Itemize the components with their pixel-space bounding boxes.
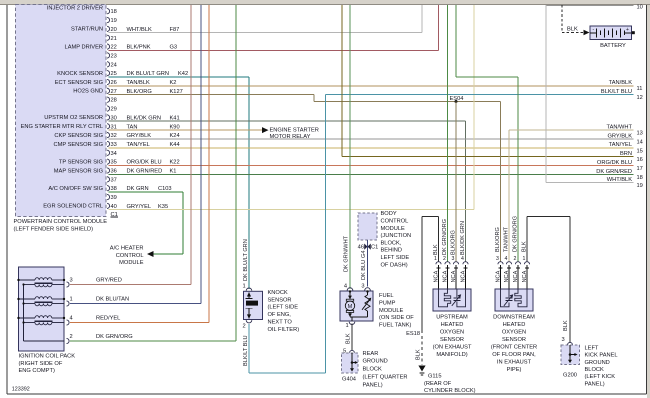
svg-text:22: 22 [111, 45, 117, 51]
svg-text:3: 3 [70, 278, 73, 284]
svg-text:K44: K44 [170, 142, 180, 148]
wire DK BLU G4 BCM to fuel pump pin 3 [367, 240, 369, 250]
fuel pump module box [340, 291, 373, 321]
svg-text:DK BLU/LT GRN: DK BLU/LT GRN [243, 239, 249, 281]
svg-text:3: 3 [496, 256, 499, 262]
PCM connector C1 pin arcs and pin numbers 18-40 [107, 9, 110, 14]
svg-text:ES04: ES04 [450, 96, 464, 102]
svg-text:OXYGEN: OXYGEN [502, 329, 526, 335]
svg-text:(LEFT FENDER SIDE SHIELD): (LEFT FENDER SIDE SHIELD) [14, 227, 94, 233]
svg-text:OF ENG,: OF ENG, [268, 312, 292, 318]
svg-text:NCA: NCA [496, 270, 502, 282]
svg-text:F87: F87 [170, 27, 180, 33]
svg-text:OXYGEN: OXYGEN [440, 329, 464, 335]
wire RED/YEL coil pack pin4 vertical [208, 5, 210, 323]
svg-text:15: 15 [637, 148, 643, 154]
arrow to engine starter motor relay [262, 127, 269, 133]
svg-text:MODULE: MODULE [119, 260, 144, 266]
wire BRN to right pin 16 [341, 5, 343, 156]
coil transformer 1 [19, 279, 36, 281]
svg-text:25: 25 [111, 71, 117, 77]
svg-text:OF DASH): OF DASH) [381, 262, 408, 268]
fuel pump bottom bus [350, 316, 368, 318]
svg-text:2: 2 [243, 324, 246, 330]
upstream O2 internals heater and sensor [439, 289, 448, 307]
svg-text:DK GRN/WHT: DK GRN/WHT [344, 235, 350, 272]
svg-text:NCA: NCA [451, 270, 457, 282]
right connector pin 10 [546, 5, 634, 7]
svg-text:CONTROL: CONTROL [116, 253, 144, 259]
wire DK BLU/TAN coil pack pin1 vertical [200, 5, 202, 304]
splice ES04 [455, 100, 458, 103]
svg-text:36: 36 [111, 169, 117, 175]
svg-text:MAP SENSOR SIG: MAP SENSOR SIG [54, 168, 103, 174]
svg-text:RED/YEL: RED/YEL [96, 316, 120, 322]
wire DK BLU/TAN coil pin 1 [70, 303, 201, 305]
svg-text:4: 4 [461, 256, 464, 262]
svg-text:TAN/BLK: TAN/BLK [127, 80, 150, 86]
svg-text:REAR: REAR [363, 351, 379, 357]
svg-text:WHT/BLK: WHT/BLK [127, 27, 152, 33]
svg-text:30: 30 [111, 115, 117, 121]
svg-text:BLK: BLK [346, 333, 352, 344]
downstream O2 sensor box [495, 289, 533, 311]
svg-text:INJECTOR 2 DRIVER: INJECTOR 2 DRIVER [47, 6, 103, 12]
svg-text:ORG/DK BLU: ORG/DK BLU [127, 160, 162, 166]
svg-text:BEHIND: BEHIND [381, 248, 403, 254]
svg-text:BLK/PNK: BLK/PNK [127, 45, 151, 51]
svg-text:PIPE): PIPE) [507, 367, 522, 373]
svg-text:32: 32 [111, 133, 117, 139]
right gray strip [647, 5, 650, 398]
svg-text:K127: K127 [170, 89, 183, 95]
svg-text:19: 19 [637, 183, 643, 189]
svg-text:17: 17 [637, 166, 643, 172]
svg-text:BLOCK,: BLOCK, [381, 240, 402, 246]
svg-text:ES18: ES18 [406, 331, 420, 337]
svg-text:ENG COMPT): ENG COMPT) [19, 368, 55, 374]
svg-text:BLK: BLK [521, 241, 527, 252]
svg-text:OF FLOOR PAN,: OF FLOOR PAN, [492, 352, 536, 358]
svg-text:5: 5 [343, 348, 346, 354]
svg-text:27: 27 [111, 89, 117, 95]
svg-text:(LEFT SIDE: (LEFT SIDE [268, 305, 299, 311]
svg-text:HEATED: HEATED [441, 322, 464, 328]
wire GRY/BLK K24 pin32 to right pin 14 [109, 138, 634, 140]
wire BLK/PNK G3 pin22 [109, 49, 439, 51]
svg-text:33: 33 [111, 142, 117, 148]
svg-text:NCA: NCA [513, 270, 519, 282]
svg-text:K24: K24 [170, 133, 180, 139]
svg-text:12: 12 [637, 95, 643, 101]
wire WHT/BLK F87 pin20 [109, 32, 423, 34]
battery [590, 26, 632, 40]
svg-text:23: 23 [111, 53, 117, 59]
knock sensor pin 2 [246, 320, 252, 323]
svg-text:BODY: BODY [381, 211, 397, 217]
svg-text:GRY/BLK: GRY/BLK [607, 133, 632, 139]
svg-text:26: 26 [111, 80, 117, 86]
svg-text:35: 35 [111, 160, 117, 166]
wire DK GRN/ORG top segment to downstream O2 pin2 [455, 5, 457, 77]
wire DK GRN/RED K1 pin36 to right pin 18 [109, 173, 634, 175]
svg-text:UPSTRM O2 SENSOR: UPSTRM O2 SENSOR [44, 115, 103, 121]
wire BLK/DK GRN K41 pin30 to upstream O2 pin4 [109, 120, 466, 122]
wire RED/YEL coil pin 4 [70, 322, 209, 324]
svg-text:28: 28 [111, 98, 117, 104]
svg-text:1: 1 [346, 323, 349, 329]
svg-text:BLK/ORG: BLK/ORG [450, 230, 456, 255]
svg-text:2: 2 [514, 256, 517, 262]
svg-text:SENSOR: SENSOR [440, 337, 464, 343]
fuel level sender [367, 291, 369, 295]
svg-text:GRY/BLK: GRY/BLK [127, 133, 152, 139]
svg-text:(JUNCTION: (JUNCTION [381, 233, 412, 239]
svg-text:PANEL): PANEL) [585, 381, 605, 387]
wire DK GRN/ORG upstream O2 pin2 [447, 5, 449, 262]
svg-text:M: M [348, 304, 353, 310]
wire BLK upstream O2 pin1 to splice ES18 [438, 217, 440, 263]
wire BLK/ORG K127 pin27 jog to O2 sensors with splice [109, 94, 315, 96]
knock sensor internals [248, 293, 250, 299]
drawing border bottom [7, 393, 647, 395]
svg-text:DK GRN: DK GRN [127, 186, 149, 192]
wire DK GRN/ORG coil pin 2 [70, 340, 236, 342]
svg-text:19: 19 [111, 18, 117, 24]
wire BLK downstream O2 pin1 to G200 [526, 217, 528, 262]
svg-text:K42: K42 [178, 71, 188, 77]
svg-text:FUEL: FUEL [379, 293, 394, 299]
svg-text:TP SENSOR SIG: TP SENSOR SIG [59, 159, 103, 165]
svg-text:NEXT TO: NEXT TO [268, 320, 293, 326]
fuel pump pin 1 [349, 322, 355, 325]
svg-text:NCA: NCA [461, 270, 467, 282]
svg-text:(LEFT KICK: (LEFT KICK [585, 374, 616, 380]
svg-text:4: 4 [344, 284, 347, 290]
svg-text:3: 3 [452, 256, 455, 262]
coil pack pin arcs [67, 282, 70, 287]
PCM module U1: POWERTRAIN CONTROL MODULE [16, 5, 107, 217]
svg-text:KNOCK: KNOCK [268, 290, 288, 296]
svg-text:24: 24 [111, 62, 117, 68]
svg-text:EGR SOLENOID CTRL: EGR SOLENOID CTRL [43, 204, 103, 210]
wire TAN/WHT downstream O2 pin4 to right pin 13 [508, 130, 510, 262]
svg-text:BLK: BLK [416, 349, 422, 360]
knock sensor box [244, 291, 263, 319]
svg-text:MODULE: MODULE [379, 308, 404, 314]
svg-text:2: 2 [70, 334, 73, 340]
G404 internals [351, 353, 353, 369]
svg-text:HO2S GND: HO2S GND [73, 89, 103, 95]
svg-text:38: 38 [111, 186, 117, 192]
svg-text:IN EXHAUST: IN EXHAUST [497, 359, 532, 365]
coil transformer 2 [19, 298, 36, 300]
svg-text:3: 3 [562, 337, 565, 343]
svg-text:BLK: BLK [567, 26, 578, 32]
svg-text:(RIGHT SIDE OF: (RIGHT SIDE OF [19, 361, 63, 367]
svg-text:FUEL TANK): FUEL TANK) [379, 323, 412, 329]
svg-text:DK BLU/LT GRN: DK BLU/LT GRN [127, 71, 169, 77]
svg-text:10: 10 [637, 5, 643, 11]
svg-text:A/C HEATER: A/C HEATER [110, 246, 144, 252]
svg-text:40: 40 [111, 204, 117, 210]
svg-text:1: 1 [434, 256, 437, 262]
svg-text:BLK/LT BLU: BLK/LT BLU [243, 335, 249, 366]
svg-text:TAN/YEL: TAN/YEL [609, 142, 632, 148]
svg-text:K22: K22 [170, 160, 180, 166]
svg-text:LEFT SIDE: LEFT SIDE [381, 255, 410, 261]
svg-text:1: 1 [523, 256, 526, 262]
svg-text:18: 18 [111, 9, 117, 15]
svg-text:G4: G4 [361, 251, 367, 258]
svg-text:20: 20 [111, 27, 117, 33]
svg-text:K35: K35 [158, 204, 168, 210]
svg-text:CONTROL: CONTROL [381, 219, 409, 225]
wire TAN K90 pin31 to engine starter motor relay [109, 129, 263, 131]
fuel pump motor [349, 290, 351, 292]
ground G115 symbol [418, 366, 425, 372]
coil pack internal bus [23, 285, 25, 342]
svg-text:G404: G404 [342, 377, 356, 383]
wire TAN/YEL K44 pin33 to right pin 15 [109, 147, 634, 149]
svg-text:TAN/WHT: TAN/WHT [503, 226, 509, 252]
svg-text:DK GRN/RED: DK GRN/RED [127, 169, 163, 175]
svg-text:MANIFOLD): MANIFOLD) [436, 352, 467, 358]
svg-text:DK GRN/RED: DK GRN/RED [596, 169, 632, 175]
svg-text:1: 1 [70, 297, 73, 303]
drawing border right [646, 5, 648, 394]
svg-text:3: 3 [361, 284, 364, 290]
svg-text:4: 4 [70, 316, 73, 322]
svg-text:+: + [626, 27, 629, 33]
wire ORG/DK BLU K22 pin35 to right pin 17 [109, 164, 634, 166]
svg-text:(ON SIDE OF: (ON SIDE OF [379, 315, 414, 321]
wire BLK dashed battery feed [561, 5, 563, 33]
upstream O2 sensor box [433, 289, 471, 311]
svg-text:DK GRN/ORG: DK GRN/ORG [512, 216, 518, 252]
svg-text:(ON EXHAUST: (ON EXHAUST [433, 344, 472, 350]
svg-text:BLK/DK GRN: BLK/DK GRN [127, 115, 161, 121]
svg-text:CYLINDER BLOCK): CYLINDER BLOCK) [424, 388, 476, 394]
ignition coil pack box [19, 267, 65, 351]
svg-text:37: 37 [111, 177, 117, 183]
svg-text:POWERTRAIN CONTROL MODULE: POWERTRAIN CONTROL MODULE [14, 219, 108, 225]
svg-text:NCA: NCA [504, 270, 510, 282]
svg-text:13: 13 [637, 131, 643, 137]
wire WHT/BLK right vertical to right pin 19 [545, 5, 547, 183]
svg-text:NCA: NCA [443, 270, 449, 282]
svg-text:SENSOR: SENSOR [502, 337, 526, 343]
svg-text:BLK/DK GRN: BLK/DK GRN [460, 221, 466, 255]
svg-text:BLOCK: BLOCK [585, 367, 604, 373]
arrow to A/C heater control module [147, 251, 154, 257]
svg-text:(REAR OF: (REAR OF [424, 381, 452, 387]
svg-text:18: 18 [637, 175, 643, 181]
wire DK BLU/LT GRN K42 pin25 to knock sensor [109, 76, 250, 78]
left kick panel ground block G200 box [561, 345, 580, 365]
svg-text:PANEL): PANEL) [363, 382, 383, 388]
wire TAN/BLK K2 pin26 to right pin 11 [109, 85, 634, 87]
svg-text:G200: G200 [563, 373, 577, 379]
svg-text:KICK PANEL: KICK PANEL [585, 353, 618, 359]
svg-text:BLK/ORG: BLK/ORG [495, 227, 501, 252]
wire DK GRN/WHT to fuel pump pin 4 [349, 5, 351, 289]
wire GRY/RED coil pin 3 [70, 284, 191, 286]
svg-text:SENSOR: SENSOR [268, 297, 292, 303]
wire BLK/ORG downstream O2 pin3 [500, 102, 502, 263]
wire DK GRN/ORG coil pack pin2 vertical [235, 5, 237, 341]
svg-text:IGNITION COIL PACK: IGNITION COIL PACK [19, 354, 76, 360]
svg-text:NCA: NCA [522, 270, 528, 282]
wire BLK/ORG upstream O2 pin3 [455, 102, 457, 263]
svg-text:2: 2 [443, 256, 446, 262]
coil transformer 3 [19, 317, 36, 319]
svg-text:DK BLU/TAN: DK BLU/TAN [96, 297, 129, 303]
svg-text:CMP SENSOR SIG: CMP SENSOR SIG [53, 142, 103, 148]
svg-text:ORG/DK BLU: ORG/DK BLU [597, 160, 632, 166]
svg-text:TAN/BLK: TAN/BLK [609, 80, 632, 86]
svg-text:34: 34 [111, 151, 117, 157]
svg-text:BLK: BLK [563, 320, 569, 331]
svg-text:TAN: TAN [127, 124, 138, 130]
svg-text:K41: K41 [170, 115, 180, 121]
svg-text:BLK/ORG: BLK/ORG [127, 89, 152, 95]
G200 internals [569, 345, 571, 361]
svg-text:ENGINE STARTER: ENGINE STARTER [270, 127, 319, 133]
svg-text:K2: K2 [170, 80, 177, 86]
svg-text:39: 39 [111, 195, 117, 201]
svg-text:G3: G3 [170, 45, 178, 51]
rear ground block G404 box [342, 353, 359, 373]
svg-text:DK GRN/ORG: DK GRN/ORG [96, 334, 133, 340]
svg-text:4: 4 [505, 256, 508, 262]
svg-text:123392: 123392 [12, 387, 30, 393]
wire GRY/YEL K35 pin40 [109, 209, 475, 211]
svg-text:BATTERY: BATTERY [600, 43, 626, 49]
svg-text:K90: K90 [170, 124, 180, 130]
svg-text:14: 14 [637, 140, 643, 146]
svg-text:(LEFT QUARTER: (LEFT QUARTER [363, 375, 408, 381]
svg-text:DOWNSTREAM: DOWNSTREAM [493, 314, 535, 320]
svg-text:PUMP: PUMP [379, 300, 396, 306]
svg-text:C103: C103 [158, 186, 172, 192]
wire GRY/RED coil pack pin3 vertical [190, 5, 192, 285]
svg-text:OIL FILTER): OIL FILTER) [268, 327, 300, 333]
svg-text:TAN/YEL: TAN/YEL [127, 142, 150, 148]
svg-text:BLK: BLK [433, 244, 439, 255]
svg-text:K1: K1 [170, 169, 177, 175]
wire DK GRN C103 pin38 to A/C heater control module [109, 191, 184, 193]
svg-text:ECT SENSOR SIG: ECT SENSOR SIG [55, 80, 103, 86]
svg-text:21: 21 [111, 36, 117, 42]
svg-text:CKP SENSOR SIG: CKP SENSOR SIG [54, 133, 103, 139]
svg-text:KNOCK SENSOR: KNOCK SENSOR [57, 71, 103, 77]
wire BLK/LT BLU knock sensor to right pin 12 [248, 324, 250, 373]
downstream O2 internals sensor and heater [501, 289, 510, 307]
svg-text:GRY/YEL: GRY/YEL [127, 204, 152, 210]
svg-text:A/C ON/OFF SW SIG: A/C ON/OFF SW SIG [48, 186, 103, 192]
svg-text:ENG STARTER MTR RLY CTRL: ENG STARTER MTR RLY CTRL [21, 124, 103, 130]
body control module box [358, 213, 377, 240]
svg-text:31: 31 [111, 124, 117, 130]
svg-text:NCA: NCA [434, 270, 440, 282]
svg-text:11: 11 [637, 86, 643, 92]
svg-text:(FRONT CENTER: (FRONT CENTER [491, 344, 537, 350]
svg-text:DK BLU: DK BLU [361, 260, 367, 280]
svg-text:START/RUN: START/RUN [71, 27, 103, 33]
svg-text:1: 1 [243, 283, 246, 289]
drawing border left [6, 5, 8, 394]
svg-text:DK GRN/ORG: DK GRN/ORG [442, 219, 448, 255]
G200 pin 3 arc [568, 342, 573, 344]
svg-text:GROUND: GROUND [363, 359, 388, 365]
svg-text:46: 46 [358, 244, 364, 250]
svg-text:UPSTREAM: UPSTREAM [436, 314, 468, 320]
svg-text:GROUND: GROUND [585, 360, 610, 366]
svg-text:MODULE: MODULE [381, 226, 406, 232]
wire BLK fuel pump to G404 [351, 323, 353, 350]
svg-text:LAMP DRIVER: LAMP DRIVER [65, 44, 103, 50]
svg-text:HEATED: HEATED [503, 322, 526, 328]
svg-text:LEFT: LEFT [585, 345, 599, 351]
svg-text:29: 29 [111, 107, 117, 113]
svg-text:BLOCK: BLOCK [363, 367, 382, 373]
app top bar [0, 0, 650, 4]
svg-text:C1: C1 [371, 244, 378, 250]
svg-text:16: 16 [637, 157, 643, 163]
svg-text:GRY/RED: GRY/RED [96, 278, 122, 284]
svg-text:G115: G115 [428, 373, 442, 379]
